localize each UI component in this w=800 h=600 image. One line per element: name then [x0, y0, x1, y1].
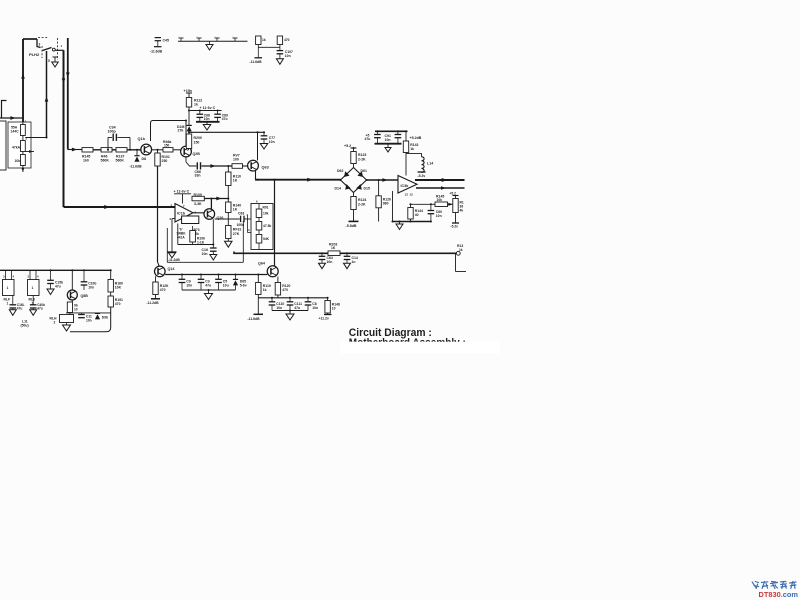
svg-text:+ 11·6v C: + 11·6v C [174, 190, 190, 194]
svg-text:10n: 10n [86, 318, 92, 322]
svg-text:PLH2: PLH2 [29, 52, 40, 57]
svg-text:4k: 4k [460, 209, 464, 213]
svg-text:(50u): (50u) [21, 324, 29, 328]
svg-text:13: 13 [405, 193, 409, 197]
svg-text:10u: 10u [223, 283, 229, 287]
svg-text:1: 1 [32, 286, 34, 290]
svg-text:-11.6dB: -11.6dB [130, 165, 143, 169]
svg-text:-11.6dB: -11.6dB [248, 317, 261, 321]
svg-text:47kA: 47kA [12, 146, 21, 150]
svg-text:470: 470 [115, 302, 121, 306]
svg-text:Q63: Q63 [262, 166, 269, 170]
svg-text:150: 150 [164, 144, 170, 148]
svg-text:1k: 1k [263, 288, 267, 292]
svg-text:D62: D62 [337, 169, 343, 173]
svg-text:27K: 27K [233, 232, 240, 236]
svg-text:10n: 10n [312, 306, 318, 310]
svg-text:-11.6dB: -11.6dB [250, 60, 263, 64]
svg-text:470: 470 [282, 288, 288, 292]
svg-text:10n: 10n [88, 285, 94, 289]
svg-text:R200: R200 [194, 136, 202, 140]
svg-text:47u: 47u [222, 117, 228, 121]
svg-text:10n: 10n [327, 260, 333, 264]
svg-text:5-6v: 5-6v [240, 283, 247, 287]
svg-text:10: 10 [332, 307, 336, 311]
svg-text:1k: 1k [262, 38, 266, 42]
svg-text:Q14: Q14 [168, 267, 176, 271]
svg-text:+5.2: +5.2 [450, 191, 457, 195]
svg-text:1k0: 1k0 [83, 159, 89, 163]
svg-text:D61: D61 [361, 169, 367, 173]
svg-text:Q8B: Q8B [81, 294, 89, 298]
svg-text:1K: 1K [233, 179, 238, 183]
svg-text:-11.2dB: -11.2dB [168, 258, 180, 262]
svg-text:10n: 10n [186, 283, 192, 287]
svg-text:10k: 10k [15, 159, 21, 163]
svg-text:-5.2v: -5.2v [418, 174, 426, 178]
svg-text:33n: 33n [195, 174, 201, 178]
svg-text:1k: 1k [410, 147, 414, 151]
svg-text:150: 150 [194, 141, 200, 145]
svg-text:L14: L14 [427, 162, 433, 166]
svg-text:1K: 1K [233, 208, 238, 212]
svg-text:10n: 10n [385, 138, 391, 142]
svg-text:1n: 1n [352, 260, 356, 264]
svg-text:10k: 10k [437, 198, 443, 202]
svg-text:27k: 27k [178, 129, 184, 133]
svg-text:+15v: +15v [184, 89, 193, 93]
svg-text:47u: 47u [55, 284, 61, 288]
svg-text:Q2B: Q2B [193, 152, 201, 156]
svg-text:C63: C63 [238, 212, 244, 216]
svg-text:10n: 10n [269, 140, 275, 144]
svg-text:560K: 560K [101, 159, 110, 163]
svg-text:-5.8dB: -5.8dB [346, 224, 357, 228]
svg-text:10: 10 [74, 307, 78, 311]
svg-text:47u: 47u [365, 137, 371, 141]
svg-text:+5.2: +5.2 [344, 144, 351, 148]
svg-text:R124: R124 [358, 198, 366, 202]
svg-text:47u: 47u [294, 306, 300, 310]
svg-text:1k: 1k [194, 103, 198, 107]
svg-text:+5.2dB: +5.2dB [410, 136, 422, 140]
svg-text:47u: 47u [37, 306, 43, 310]
svg-text:40: 40 [415, 213, 419, 217]
svg-text:100p: 100p [108, 130, 117, 134]
svg-text:10n: 10n [285, 54, 291, 58]
svg-text:R91: R91 [263, 206, 269, 210]
svg-text:54K: 54K [263, 237, 270, 241]
svg-text:+11.2v: +11.2v [319, 317, 329, 321]
svg-text:470: 470 [160, 288, 166, 292]
svg-text:250: 250 [162, 159, 168, 163]
svg-text:10k: 10k [263, 212, 269, 216]
svg-text:3-3K: 3-3K [194, 202, 202, 206]
svg-text:470: 470 [284, 38, 290, 42]
svg-text:R123: R123 [358, 153, 366, 157]
svg-text:100: 100 [233, 158, 239, 162]
svg-text:980: 980 [383, 202, 389, 206]
svg-text:10n: 10n [204, 117, 210, 121]
svg-text:10n: 10n [276, 306, 282, 310]
svg-text:1K: 1K [331, 246, 336, 250]
svg-text:D9b: D9b [102, 316, 108, 320]
svg-text:5: 5 [48, 59, 50, 63]
svg-text:D8: D8 [142, 157, 147, 161]
svg-text:Q64: Q64 [258, 262, 266, 266]
svg-text:+ 11·6v C: + 11·6v C [200, 106, 216, 110]
svg-text:2-2K: 2-2K [358, 203, 366, 207]
svg-text:Q1b: Q1b [138, 137, 146, 141]
svg-text:2-2K: 2-2K [358, 158, 366, 162]
svg-text:560K: 560K [116, 159, 125, 163]
svg-text:D15: D15 [364, 187, 370, 191]
svg-text:10n: 10n [436, 214, 442, 218]
svg-text:10n: 10n [202, 252, 208, 256]
svg-text:3: 3 [39, 43, 41, 47]
svg-text:10K: 10K [115, 286, 122, 290]
svg-text:IC1b: IC1b [177, 212, 186, 216]
svg-text:-11.2dB: -11.2dB [147, 301, 160, 305]
svg-text:47u: 47u [205, 283, 211, 287]
svg-text:DT830.com: DT830.com [759, 590, 799, 599]
svg-text:2: 2 [54, 321, 56, 325]
svg-text:1: 1 [7, 302, 9, 306]
svg-text:12: 12 [410, 193, 414, 197]
svg-text:47u: 47u [17, 306, 23, 310]
svg-text:1-1K: 1-1K [197, 241, 205, 245]
svg-text:D14: D14 [335, 187, 341, 191]
svg-text:-5.2v: -5.2v [451, 225, 459, 229]
svg-text:1: 1 [7, 286, 9, 290]
svg-text:IC3b: IC3b [401, 184, 410, 188]
svg-text:144C: 144C [11, 130, 20, 134]
svg-text:-11.6dB: -11.6dB [150, 50, 163, 54]
svg-text:47.5k: 47.5k [263, 224, 271, 228]
svg-text:C45: C45 [163, 39, 169, 43]
